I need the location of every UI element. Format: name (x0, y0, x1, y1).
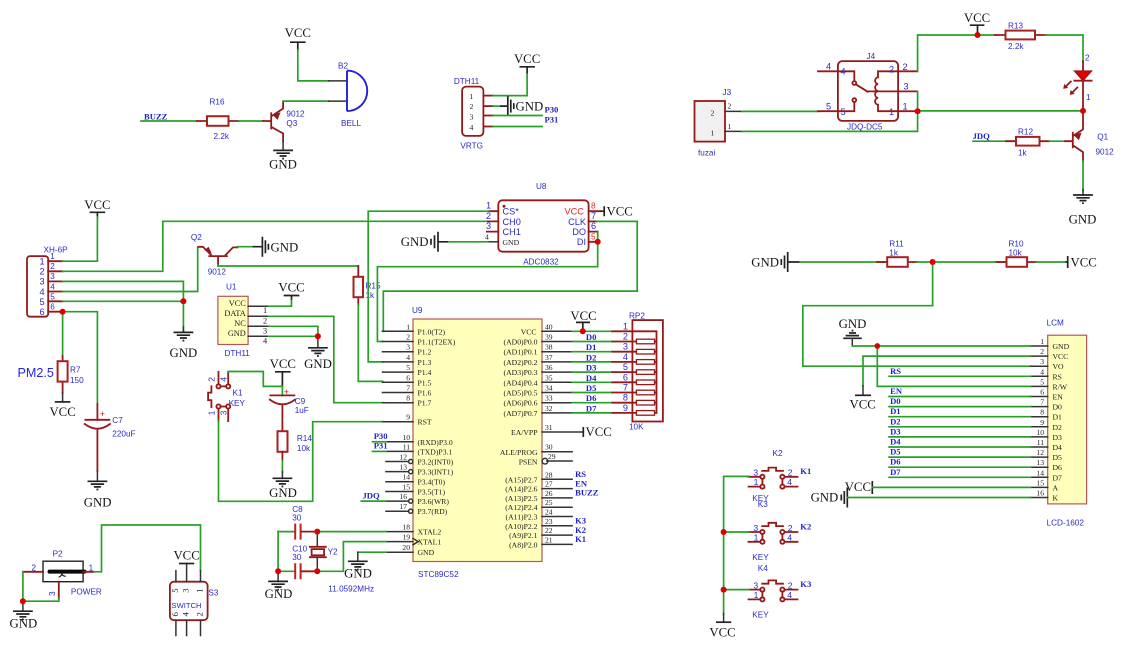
wire R14 to ground (281, 460, 283, 472)
switch S3 (170, 564, 219, 636)
svg-text:3: 3 (181, 588, 191, 593)
power VCC above C9 (270, 357, 296, 386)
wire Y2 bottom to U9 XTAL1 (317, 542, 386, 572)
wire JDQ to R12 (973, 140, 1017, 142)
svg-text:K2: K2 (773, 449, 783, 458)
svg-text:20: 20 (402, 543, 410, 552)
wire D1 to LCM pin8 (889, 416, 1030, 418)
svg-text:30: 30 (545, 443, 553, 452)
wire D7 to LCM pin14 (889, 476, 1030, 478)
wire U9 P0.6 (net D6) (572, 402, 612, 404)
pin 1 of J4 (878, 105, 918, 111)
power VCC right of U1 (278, 281, 304, 301)
resistor R14 (278, 431, 313, 460)
svg-text:39: 39 (545, 333, 553, 342)
svg-text:P1.5: P1.5 (418, 378, 432, 387)
wire U8 CS* to U9 P1.3 (368, 211, 489, 362)
svg-text:D6: D6 (1053, 463, 1063, 472)
svg-text:VRTG: VRTG (460, 142, 483, 151)
wire D3 to LCM pin10 (889, 436, 1030, 438)
svg-text:(A13)P2.5: (A13)P2.5 (505, 494, 537, 503)
wire K1 pin1 to U9 RST (219, 421, 383, 502)
svg-text:7: 7 (623, 383, 628, 393)
svg-text:P30: P30 (545, 105, 559, 115)
svg-text:GND: GND (839, 317, 867, 331)
svg-text:D1: D1 (890, 406, 901, 416)
wire P2 pin2 to ground (22, 572, 24, 601)
svg-text:SWITCH: SWITCH (172, 601, 202, 610)
svg-text:GND: GND (751, 255, 779, 269)
relay coil (875, 77, 878, 105)
wire U1 pin3 to pin4 node (269, 326, 318, 336)
wire R15 bottom to U9 P1.5 (358, 304, 382, 381)
svg-text:VCC: VCC (709, 626, 735, 640)
svg-text:8: 8 (1040, 408, 1044, 417)
pin stubs J3 (725, 111, 742, 131)
ground below U1 (304, 336, 332, 371)
svg-text:4: 4 (787, 477, 792, 487)
svg-text:VCC: VCC (586, 425, 612, 439)
svg-text:D4: D4 (1053, 443, 1063, 452)
sensor U1 DTH11 (218, 283, 269, 359)
crystal Y2 (310, 532, 338, 572)
svg-text:10k: 10k (1009, 249, 1023, 258)
svg-text:11: 11 (1037, 438, 1045, 447)
svg-text:2: 2 (1085, 54, 1090, 63)
svg-text:13: 13 (399, 463, 407, 472)
svg-text:4: 4 (787, 590, 792, 600)
svg-text:NC: NC (234, 319, 246, 328)
svg-text:5: 5 (1040, 377, 1044, 386)
svg-text:9012: 9012 (1096, 148, 1115, 157)
power VCC below keys (709, 614, 735, 640)
svg-text:(AD7)P0.7: (AD7)P0.7 (504, 409, 538, 418)
U9 right pin numbers (545, 322, 556, 544)
U9 clock marker pin19 (413, 538, 418, 544)
svg-text:11.0592MHz: 11.0592MHz (328, 585, 374, 594)
svg-text:6: 6 (40, 307, 45, 317)
svg-text:(A10)P2.2: (A10)P2.2 (505, 522, 537, 531)
wire C8 to C10 left side (277, 532, 279, 572)
svg-text:RS: RS (1053, 372, 1062, 381)
svg-text:(AD4)P0.4: (AD4)P0.4 (504, 378, 538, 387)
svg-text:2: 2 (406, 333, 410, 342)
U9 PSEN circle pin29 (542, 458, 548, 464)
junction LED cathode Q1 emitter (1080, 108, 1086, 114)
svg-text:15: 15 (1036, 478, 1044, 487)
LCM pin names (1053, 342, 1070, 503)
svg-text:3: 3 (218, 410, 228, 415)
power VCC above bell (285, 26, 311, 51)
power VCC above S3 (173, 549, 199, 564)
svg-text:LCM: LCM (1047, 319, 1064, 328)
svg-text:D2: D2 (1053, 423, 1063, 432)
connector P1 XH-6P (27, 246, 68, 318)
svg-text:3: 3 (753, 468, 758, 478)
wire R16 to Q3 base (239, 120, 264, 122)
svg-text:6: 6 (1040, 388, 1044, 397)
svg-text:K3: K3 (800, 579, 811, 589)
svg-text:1: 1 (711, 129, 715, 138)
svg-text:D3: D3 (1053, 433, 1063, 442)
transistor Q1 9012 (1065, 114, 1114, 161)
svg-text:22: 22 (545, 526, 553, 535)
svg-text:P1.0(T2): P1.0(T2) (418, 327, 446, 336)
wire J4 pin2 up to VCC rail (918, 35, 995, 71)
svg-text:4: 4 (1040, 367, 1044, 376)
svg-text:(A9)P2.1: (A9)P2.1 (509, 531, 538, 540)
svg-text:(A14)P2.6: (A14)P2.6 (505, 485, 537, 494)
junction pin5/pin3 (180, 298, 186, 304)
svg-text:ADC0832: ADC0832 (523, 258, 559, 267)
power VCC below LCM pin2 wire (850, 386, 876, 412)
svg-text:10k: 10k (297, 444, 311, 453)
relay J4 JDQ-DC5 (818, 52, 918, 132)
svg-text:4: 4 (841, 67, 846, 77)
ground above LCM pin1 (839, 317, 867, 346)
svg-text:XTAL2: XTAL2 (418, 528, 442, 537)
svg-text:4: 4 (826, 62, 831, 72)
svg-text:P3.5(T1): P3.5(T1) (418, 488, 446, 497)
svg-text:P3.4(T0): P3.4(T0) (418, 478, 446, 487)
svg-text:J4: J4 (867, 52, 876, 61)
RP2 internal bus (632, 331, 656, 413)
wire U8 CLK to U9 P1.0 (383, 221, 638, 331)
S3 pin lines (176, 564, 201, 636)
svg-text:GND: GND (228, 329, 246, 338)
svg-text:10: 10 (402, 433, 410, 442)
svg-text:30: 30 (292, 553, 302, 562)
svg-text:9: 9 (1040, 418, 1044, 427)
svg-text:2: 2 (195, 612, 205, 616)
svg-text:DI: DI (577, 237, 586, 247)
svg-text:Y2: Y2 (328, 548, 338, 557)
svg-text:2: 2 (207, 377, 217, 382)
wire P2 pin1 to S3 pin1 (94, 525, 201, 572)
svg-text:3: 3 (904, 82, 909, 92)
svg-text:9: 9 (406, 413, 410, 422)
U8 pin stubs (487, 211, 498, 231)
svg-text:XH-6P: XH-6P (44, 246, 69, 255)
wire U9 P0.1 (net D1) (572, 351, 612, 353)
wire K2 pin3 to VCC rail (724, 476, 750, 614)
ground left of U8 GND pin (401, 232, 449, 252)
resistor R16 (197, 98, 239, 142)
pushbutton K3 KEY (749, 500, 798, 562)
svg-text:P1.7: P1.7 (418, 399, 432, 408)
power VCC above XH-6P (84, 198, 110, 218)
wire P31 stub (373, 450, 387, 452)
MCU U9 STC89C52 (412, 306, 542, 579)
wire R12 to Q1 base (1050, 140, 1066, 142)
wire VRTG pin1 to VCC (493, 74, 527, 96)
svg-text:K4: K4 (758, 564, 768, 573)
svg-text:3: 3 (48, 591, 57, 596)
svg-text:GND: GND (1053, 342, 1070, 351)
wire Q2 base to R15 top (218, 264, 358, 267)
svg-text:EN: EN (1053, 393, 1064, 402)
svg-text:30: 30 (292, 514, 302, 523)
wire VRTG pin3 (net P30) (493, 115, 542, 117)
wire ground to LCM pin16 (847, 497, 1030, 499)
svg-text:1k: 1k (366, 291, 376, 300)
svg-text:13: 13 (1036, 458, 1044, 467)
svg-text:24: 24 (545, 508, 553, 517)
resistor R11 (877, 240, 917, 267)
svg-text:D5: D5 (1053, 453, 1063, 462)
svg-text:XTAL1: XTAL1 (418, 538, 442, 547)
pushbutton K2 KEY (749, 449, 798, 503)
svg-text:D0: D0 (1053, 403, 1063, 412)
ground below Q3 (269, 150, 297, 171)
svg-text:D3: D3 (586, 363, 597, 373)
svg-text:3: 3 (623, 342, 628, 352)
svg-text:26: 26 (545, 489, 553, 498)
svg-text:40: 40 (545, 322, 553, 331)
svg-text:3: 3 (486, 221, 491, 231)
wire LCM pin2 to VCC (863, 356, 1031, 386)
svg-text:1: 1 (40, 257, 45, 267)
LCM pin stubs (1031, 346, 1048, 498)
svg-text:D2: D2 (586, 352, 597, 362)
svg-text:31: 31 (545, 423, 553, 432)
wire VRTG pin4 (net P31) (493, 126, 542, 128)
svg-text:VCC: VCC (84, 198, 110, 212)
svg-text:2: 2 (711, 108, 715, 117)
svg-text:2: 2 (903, 62, 908, 72)
svg-text:34: 34 (545, 384, 553, 393)
svg-text:GND: GND (1069, 213, 1097, 227)
transistor Q3 9012 (263, 102, 305, 142)
svg-text:2: 2 (788, 580, 793, 590)
svg-text:2: 2 (263, 316, 267, 325)
wire XH-6P pin3 down to ground (63, 281, 184, 332)
power VCC above VRTG (514, 52, 540, 75)
svg-text:GND: GND (401, 235, 429, 249)
svg-text:2: 2 (470, 102, 474, 111)
transistor Q2 9012 (191, 233, 237, 277)
svg-text:D2: D2 (890, 416, 901, 426)
svg-text:P31: P31 (374, 441, 388, 451)
svg-text:JDQ: JDQ (973, 131, 991, 141)
svg-text:D1: D1 (586, 342, 597, 352)
svg-text:14: 14 (1036, 468, 1044, 477)
svg-text:GND: GND (170, 346, 198, 360)
svg-text:K1: K1 (233, 389, 243, 398)
svg-text:VCC: VCC (570, 309, 596, 323)
wire EN to LCM pin6 (889, 396, 1030, 398)
svg-text:STC89C52: STC89C52 (418, 570, 459, 579)
svg-text:1: 1 (728, 122, 732, 131)
svg-text:(AD5)P0.5: (AD5)P0.5 (504, 389, 538, 398)
svg-text:P3.6(WR): P3.6(WR) (418, 497, 450, 506)
svg-text:VCC: VCC (229, 299, 247, 308)
svg-text:P1.2: P1.2 (418, 348, 432, 357)
svg-text:5: 5 (841, 107, 846, 117)
wire K4 pin3 (724, 589, 750, 591)
wire JDQ stub (361, 500, 386, 502)
svg-text:5: 5 (591, 232, 596, 241)
svg-text:2.2k: 2.2k (1008, 42, 1024, 51)
svg-text:P3.7(RD): P3.7(RD) (418, 507, 448, 516)
svg-text:4: 4 (623, 352, 628, 362)
junction XH-6P pin6 (60, 309, 66, 315)
svg-text:POWER: POWER (71, 588, 102, 597)
wire U9 pin40 to RP2 pin1 (572, 330, 612, 332)
ground below U9 pin20 (344, 552, 372, 580)
wire K3 pin3 (724, 531, 750, 533)
svg-text:4: 4 (50, 282, 55, 291)
ground below XH-6P pins (170, 327, 198, 360)
relay contact circles and arm (852, 81, 856, 85)
svg-text:P1.6: P1.6 (418, 389, 432, 398)
pin 2 stub (483, 105, 493, 107)
svg-text:VCC: VCC (514, 52, 540, 66)
svg-text:+: + (100, 409, 105, 419)
pin 3 of J4 (868, 90, 918, 92)
svg-text:6: 6 (591, 221, 596, 231)
svg-text:29: 29 (548, 452, 556, 461)
svg-text:C7: C7 (112, 416, 123, 425)
svg-text:2: 2 (889, 65, 894, 75)
pushbutton K1 KEY (207, 372, 246, 421)
svg-text:U1: U1 (226, 283, 237, 292)
svg-text:220uF: 220uF (112, 430, 135, 439)
wire P2 pin3 to ground (23, 599, 59, 602)
wire U9 P0.3 (net D3) (572, 371, 612, 373)
svg-text:R11: R11 (889, 240, 904, 249)
wire U9 P0.5 (net D5) (572, 392, 612, 394)
svg-text:DO: DO (572, 227, 586, 237)
svg-text:PSEN: PSEN (519, 458, 538, 467)
svg-text:CLK: CLK (568, 217, 587, 227)
wire U1 pin4 to ground (269, 335, 318, 337)
resistor R15 (354, 266, 381, 305)
ground below C10 (265, 571, 293, 601)
svg-text:GND: GND (84, 496, 112, 510)
LCD LCM LCD-1602 (1047, 319, 1087, 528)
svg-text:D5: D5 (890, 447, 901, 457)
capacitor C10 30 (278, 545, 317, 580)
svg-text:1k: 1k (1018, 149, 1028, 158)
svg-text:21: 21 (545, 535, 553, 544)
wire D2 to LCM pin9 (889, 426, 1030, 428)
svg-text:D7: D7 (1053, 473, 1063, 482)
svg-text:27: 27 (545, 480, 553, 489)
svg-text:LCD-1602: LCD-1602 (1047, 519, 1085, 528)
pin 2 of J4 (878, 71, 918, 77)
junction at J4 pin1 (915, 108, 921, 114)
svg-text:(TXD)P3.1: (TXD)P3.1 (418, 447, 453, 456)
capacitor C7 220uF (85, 404, 136, 471)
wire P30 stub (373, 441, 387, 443)
svg-text:VO: VO (1053, 362, 1065, 371)
junction Y2 bottom (314, 568, 320, 574)
resistor R13 (995, 22, 1046, 52)
connector J3 fuzai (695, 88, 742, 158)
svg-text:GND: GND (265, 587, 293, 601)
svg-text:D4: D4 (890, 437, 901, 447)
connector U? DTH11 (VRTG) (454, 77, 493, 151)
svg-text:VCC: VCC (521, 327, 537, 336)
svg-text:B2: B2 (338, 61, 348, 70)
wire ground to LCM pin1 (852, 345, 1030, 347)
connector P2 POWER (23, 550, 102, 600)
svg-text:VCC: VCC (850, 398, 876, 412)
wire U9 GND pin20 to ground (358, 551, 386, 553)
svg-text:S3: S3 (208, 589, 218, 598)
RP2 pin numbers (623, 321, 628, 413)
svg-text:P30: P30 (374, 431, 388, 441)
svg-text:A: A (1053, 483, 1059, 492)
svg-text:P2: P2 (53, 550, 63, 559)
wire VCC to C9 (281, 386, 283, 395)
svg-text:3: 3 (406, 343, 410, 352)
svg-text:R13: R13 (1008, 22, 1023, 31)
svg-text:K: K (1053, 494, 1059, 503)
junction LCM pin1 wire (874, 343, 880, 349)
svg-text:150: 150 (70, 376, 84, 385)
svg-text:2: 2 (50, 262, 55, 271)
svg-text:2: 2 (623, 332, 628, 342)
svg-text:7: 7 (406, 384, 410, 393)
wire ground to R11 (800, 261, 887, 263)
svg-text:RS: RS (890, 366, 901, 376)
wire J3 pin1 to node below J4 (742, 113, 918, 131)
svg-text:P1.3: P1.3 (418, 358, 432, 367)
svg-text:C9: C9 (295, 397, 306, 406)
wire D4 to LCM pin11 (889, 446, 1030, 448)
svg-text:K3: K3 (758, 500, 768, 509)
wire D0 to LCM pin7 (889, 406, 1030, 408)
svg-text:PM2.5: PM2.5 (18, 366, 54, 380)
svg-text:R16: R16 (210, 98, 225, 107)
svg-text:3: 3 (753, 523, 758, 533)
svg-text:U8: U8 (536, 182, 547, 191)
svg-text:1: 1 (754, 532, 759, 542)
svg-text:12: 12 (399, 453, 407, 462)
LCM pin numbers (1036, 337, 1044, 498)
svg-text:VCC: VCC (173, 549, 199, 563)
svg-text:fuzai: fuzai (698, 149, 715, 158)
svg-text:23: 23 (545, 517, 553, 526)
U9 left pin names (418, 327, 456, 557)
wire R13 to LED anode (1046, 35, 1084, 62)
IC U8 ADC0832 (485, 182, 600, 267)
svg-text:(A15)P2.7: (A15)P2.7 (505, 475, 537, 484)
svg-text:1: 1 (623, 321, 628, 331)
ground below Q1 (1069, 195, 1097, 227)
svg-text:K1: K1 (800, 466, 811, 476)
resistor R12 (1006, 128, 1050, 158)
svg-text:P1.4: P1.4 (418, 368, 432, 377)
svg-text:DATA: DATA (224, 309, 245, 318)
svg-text:D0: D0 (890, 396, 901, 406)
svg-text:D3: D3 (890, 426, 901, 436)
svg-text:(AD6)P0.6: (AD6)P0.6 (504, 399, 538, 408)
power VCC below R7 (49, 393, 75, 419)
wire VRTG pin2 to ground (493, 105, 500, 107)
svg-text:10K: 10K (629, 423, 644, 432)
svg-text:GND: GND (271, 241, 299, 255)
svg-text:1uF: 1uF (295, 406, 309, 415)
svg-text:7: 7 (1040, 398, 1044, 407)
svg-text:25: 25 (545, 498, 553, 507)
svg-text:D7: D7 (890, 467, 901, 477)
svg-text:1: 1 (195, 588, 205, 592)
svg-text:12: 12 (1036, 448, 1044, 457)
svg-text:CH0: CH0 (503, 217, 521, 227)
